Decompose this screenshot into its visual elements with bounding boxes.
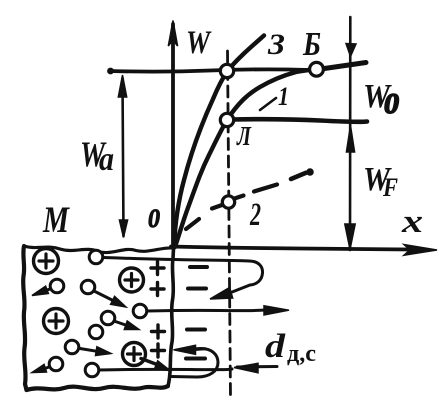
electron E9	[85, 363, 99, 377]
metal outline right edge	[168, 249, 174, 386]
wire upper loop turn	[227, 261, 263, 294]
svg-text:a: a	[99, 141, 114, 178]
svg-text:Б: Б	[302, 26, 321, 63]
wire Wa down arrowhead	[119, 220, 127, 238]
ion I2	[120, 268, 144, 292]
electron E6	[89, 325, 103, 339]
electron E7	[65, 340, 79, 354]
metal outline bottom edge	[27, 386, 169, 390]
wire W axis vertical line	[171, 24, 175, 246]
electron E8	[49, 357, 63, 371]
svg-text:d: d	[265, 328, 286, 365]
svg-text:М: М	[42, 200, 70, 241]
node minus signs of double layer	[190, 265, 207, 269]
wire E2 arrow	[45, 289, 50, 291]
wire x axis arrowhead	[404, 245, 437, 256]
svg-text:x: x	[401, 204, 423, 240]
wire ion I4 arrow to surface	[141, 359, 157, 365]
svg-text:д,с: д,с	[287, 341, 316, 367]
svg-text:0: 0	[148, 204, 160, 233]
electron E2	[50, 279, 64, 293]
wire lower loop	[171, 349, 218, 378]
curve 2 dashed segment b	[212, 205, 222, 209]
svg-text:F: F	[382, 173, 398, 202]
wire line beyond point B	[321, 63, 366, 70]
svg-text:0: 0	[384, 88, 399, 120]
node dot at left end of top line	[107, 68, 114, 75]
wire dashed vertical line d	[228, 51, 231, 398]
node open circle on curve 3	[220, 64, 233, 77]
node B open circle	[310, 62, 324, 76]
wire up arrowhead at A level	[346, 126, 354, 153]
wire Wa up arrowhead	[118, 75, 126, 97]
wire upper loop return arrowhead	[210, 288, 233, 300]
curve 2 dashed segment c	[235, 196, 244, 199]
ion I3	[44, 309, 69, 334]
wire E7 arrow	[80, 349, 97, 352]
wire Wa dimension vertical line	[123, 78, 124, 236]
wire E1 trajectory to loop	[103, 258, 249, 262]
electron E3	[81, 280, 95, 294]
ion I1	[34, 249, 59, 274]
curve 2 dashed segment e with end blob	[291, 173, 306, 179]
wire right dimension vertical line	[349, 17, 352, 250]
svg-text:2: 2	[249, 197, 261, 233]
curve 3	[174, 36, 264, 247]
svg-text:3: 3	[267, 28, 285, 61]
wire E5 arrow	[114, 321, 127, 326]
wire E4 trajectory arrow right	[147, 310, 266, 311]
node open circle on curve 2	[222, 196, 234, 208]
electron E4	[133, 304, 147, 318]
curve 2 dashed segment a	[186, 219, 199, 229]
node A open circle on curve 1	[220, 113, 233, 126]
curve 2 dashed segment d	[254, 185, 277, 192]
svg-text:Л: Л	[236, 121, 252, 151]
node top level line W=0	[110, 69, 310, 71]
wire E9 trajectory line right	[99, 369, 232, 370]
curve 1	[175, 70, 317, 248]
electron E5	[101, 311, 115, 325]
node A level line	[232, 119, 367, 122]
electron E1	[89, 250, 103, 264]
wire E3 arrow	[95, 292, 113, 301]
metal outline left edge	[23, 246, 26, 390]
wire label 1 pointer	[260, 98, 276, 110]
svg-text:W: W	[186, 25, 212, 61]
wire E8 arrow	[45, 367, 49, 369]
ion I4	[123, 343, 146, 366]
wire down arrowhead at x axis	[345, 224, 355, 250]
wire lower loop return arrowhead	[174, 345, 196, 354]
wire x axis horizontal line	[171, 247, 412, 250]
node plus signs of double layer	[151, 262, 164, 275]
wire W axis arrowhead	[168, 21, 177, 47]
svg-text:1: 1	[278, 82, 289, 111]
wire down arrowhead at B level	[346, 44, 356, 57]
metal outline top edge	[24, 246, 173, 253]
wire d dimension arrow	[237, 365, 277, 369]
